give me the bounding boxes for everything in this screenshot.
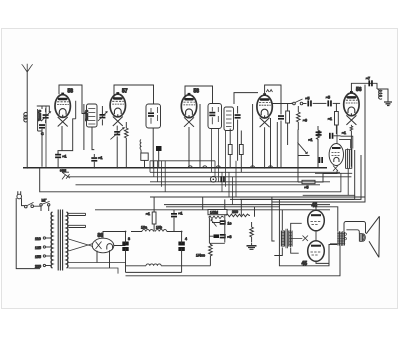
capacitor C11 <box>156 146 162 168</box>
svg-text:8: 8 <box>128 237 130 241</box>
tube V5 56 <box>344 87 362 125</box>
svg-text:МГ: МГ <box>42 199 47 203</box>
svg-text:≈1: ≈1 <box>99 156 103 160</box>
svg-text:≈5: ≈5 <box>305 186 309 190</box>
svg-text:45: 45 <box>302 261 308 267</box>
coil L2 <box>379 90 382 100</box>
node E <box>117 167 119 169</box>
svg-text:10b: 10b <box>156 226 162 230</box>
dial lamp <box>210 176 216 182</box>
resistor R11 <box>250 222 254 243</box>
chassis ground mark <box>60 168 70 179</box>
svg-text:58: 58 <box>68 89 74 95</box>
bottom wire 1 <box>126 271 182 273</box>
wire <box>203 197 255 217</box>
svg-text:80: 80 <box>98 233 104 239</box>
primary tap 110 <box>35 237 52 241</box>
resistor R2 box <box>286 104 290 146</box>
node A <box>152 167 154 169</box>
svg-text:56: 56 <box>356 87 362 93</box>
resistor R6 box <box>239 131 243 173</box>
speaker cone <box>366 216 379 257</box>
tube V3 58 <box>181 89 199 127</box>
interstage transformer T4 <box>281 229 293 248</box>
vertical value label <box>84 104 89 150</box>
trimmer C3 <box>98 106 107 125</box>
filter cap C12 <box>122 232 130 273</box>
svg-text:125: 125 <box>35 246 41 250</box>
svg-text:110: 110 <box>35 237 41 241</box>
filter cap C14 <box>178 232 187 273</box>
capacitor C10 <box>220 176 224 182</box>
winding block W1 <box>346 149 352 169</box>
svg-text:≈6: ≈6 <box>303 119 307 123</box>
svg-text:≈1: ≈1 <box>63 155 67 159</box>
antenna coil <box>24 112 27 122</box>
svg-text:C: C <box>41 132 44 136</box>
antenna <box>22 64 33 168</box>
T4 leads <box>274 210 301 256</box>
svg-text:155: 155 <box>35 255 41 259</box>
bus line 10 <box>164 204 330 206</box>
svg-text:58: 58 <box>194 89 200 95</box>
svg-text:10a: 10a <box>141 226 147 230</box>
svg-text:≈1: ≈1 <box>309 138 313 142</box>
cathode cap C2 <box>55 152 66 168</box>
node G <box>26 167 28 169</box>
tube V4 2B7 <box>257 90 273 128</box>
ladder staircase right <box>315 169 352 196</box>
V5 cathode drop <box>350 125 353 167</box>
svg-text:≈5: ≈5 <box>326 96 330 100</box>
resistor R7 box <box>146 197 156 232</box>
V4 drops <box>253 104 278 168</box>
svg-text:зем: зем <box>60 168 67 172</box>
svg-text:0,0001: 0,0001 <box>38 110 42 121</box>
svg-text:≈7: ≈7 <box>366 77 370 81</box>
svg-text:≈3: ≈3 <box>228 235 232 239</box>
bus hop 3 <box>216 166 220 168</box>
transformer secondary <box>67 212 68 268</box>
resistor R14 box <box>141 153 148 168</box>
bus line 5 <box>150 181 330 183</box>
bus line 3 <box>150 171 340 173</box>
svg-text:0,0001: 0,0001 <box>85 110 89 121</box>
enclosure wires <box>209 215 225 244</box>
output transformer T5 <box>337 231 346 246</box>
capacitor C4 <box>91 154 102 168</box>
resistor R10 <box>196 243 212 266</box>
resistor R9 <box>226 210 250 217</box>
IF transformer T2 <box>208 104 222 129</box>
bus line 12 <box>95 209 330 211</box>
IF transformer T1 <box>146 104 161 168</box>
input tuned circuit C1 <box>37 106 50 131</box>
coil L1 box <box>87 104 98 127</box>
tube V6 56 <box>329 144 343 166</box>
bias resistor R8 <box>209 216 224 219</box>
grid cap wire V1 <box>59 85 87 114</box>
tube V1 58 <box>55 89 73 127</box>
plate wires <box>316 207 338 264</box>
svg-text:220: 220 <box>35 265 41 269</box>
power transformer primary <box>51 212 52 268</box>
node D <box>93 167 95 169</box>
capacitor C17 <box>329 133 333 139</box>
bus hop 4 <box>251 166 255 168</box>
ground bus <box>23 167 327 169</box>
bus line 4 <box>67 176 351 178</box>
svg-text:57: 57 <box>122 89 128 95</box>
capacitor C16 <box>214 234 232 239</box>
ladder staircase mid <box>212 128 237 205</box>
capacitor C6 <box>278 115 284 168</box>
rectifier filament drops <box>97 250 110 268</box>
mains switch <box>25 202 42 211</box>
tube V2 57 <box>110 89 128 127</box>
grid cap wire V4 <box>234 85 292 114</box>
T5 secondary loop <box>344 222 366 234</box>
filament link <box>315 231 317 241</box>
grid cap wire V3 <box>185 86 213 104</box>
fuse <box>40 199 50 212</box>
oscillator trimmer <box>110 126 124 168</box>
capacitor C7 <box>306 97 312 107</box>
V1 cathode drop <box>58 101 76 155</box>
rectifier filament leads <box>69 239 94 251</box>
svg-text:≈1: ≈1 <box>146 212 150 216</box>
bus line 7 <box>40 168 341 192</box>
bus line 9 <box>230 195 355 199</box>
svg-text:≈1: ≈1 <box>342 131 346 135</box>
bus line 6 <box>76 184 321 186</box>
svg-text:1/4oo: 1/4oo <box>196 254 205 258</box>
cap <box>319 157 323 163</box>
capacitor C13 <box>171 210 182 232</box>
capacitor C15 <box>220 220 232 225</box>
V6 caps <box>316 131 322 135</box>
ground G1 <box>377 89 392 106</box>
ground G2 <box>247 243 257 249</box>
svg-text:≈1: ≈1 <box>179 212 183 216</box>
bus line 2 <box>150 160 215 162</box>
secondary lead 1 <box>69 213 86 215</box>
resistor R13 box <box>298 168 337 190</box>
diagonal wire to V6 <box>298 143 308 154</box>
primary tap 125 <box>35 246 52 250</box>
loop to output <box>272 197 329 266</box>
bus hop 2 <box>203 166 207 168</box>
bus hop 1 <box>188 166 192 168</box>
coupling corner wires <box>334 125 353 149</box>
osc coil L3 <box>139 140 142 154</box>
tube V8 45 <box>302 241 325 267</box>
coil drop wire <box>92 127 94 150</box>
rectifier output wire <box>103 232 126 246</box>
trimmer capacitor <box>41 108 50 123</box>
right loop wire B <box>303 150 355 195</box>
node F <box>264 167 266 169</box>
power plug <box>16 191 40 268</box>
secondary lead 2 <box>69 225 86 227</box>
wire <box>313 102 327 104</box>
resistor R1 <box>125 122 129 167</box>
primary tap 155 <box>35 255 52 259</box>
right loop wire A <box>272 85 365 202</box>
svg-text:4: 4 <box>185 237 187 241</box>
resistor R5 box <box>228 129 232 168</box>
ladder staircase left <box>150 161 165 192</box>
capacitor C9 <box>366 77 373 87</box>
speaker field choke <box>126 264 211 266</box>
node H <box>125 231 127 233</box>
capacitor C <box>39 124 45 167</box>
svg-text:1/2M: 1/2M <box>210 211 218 215</box>
volume pot <box>208 210 227 215</box>
voice coil <box>359 233 365 241</box>
bus hop 5 <box>269 166 273 168</box>
T5 inner lead <box>346 230 359 234</box>
rectifier tube 80 <box>92 233 114 253</box>
V6 heater <box>333 166 338 172</box>
wave switch S1 <box>293 99 307 105</box>
capacitor C5 <box>235 106 241 161</box>
capacitor C8 <box>326 96 340 107</box>
IF coil T3 <box>224 107 234 131</box>
node C <box>61 167 63 169</box>
grid cap wire V2 <box>114 85 154 104</box>
tube V7 45 <box>308 203 325 231</box>
svg-text:≈1: ≈1 <box>328 117 332 121</box>
transformer core <box>58 210 62 271</box>
svg-text:200: 200 <box>232 210 238 214</box>
T5 bottom wire <box>330 244 341 246</box>
right loop wire C <box>240 155 361 199</box>
filter choke 2 <box>155 226 181 232</box>
V5 top cap wire <box>351 83 377 92</box>
svg-text:1o: 1o <box>228 222 232 226</box>
wire <box>298 130 310 168</box>
bus line 11 <box>166 206 280 208</box>
bus line 8 <box>150 196 365 198</box>
node I <box>181 231 183 233</box>
svg-text:≈5: ≈5 <box>306 97 310 101</box>
grid bias X <box>290 236 308 242</box>
wiper arrow <box>211 220 217 227</box>
resistor R3 <box>296 106 306 130</box>
primary tap 220 <box>35 264 52 268</box>
left drops <box>45 106 47 168</box>
heater winding leads <box>69 263 126 274</box>
resistor R12 <box>309 126 320 167</box>
resistor R4 box <box>328 103 338 134</box>
filter choke 1 <box>131 226 153 232</box>
bottom return wire <box>126 246 341 276</box>
V3 cathode drop <box>189 104 200 168</box>
